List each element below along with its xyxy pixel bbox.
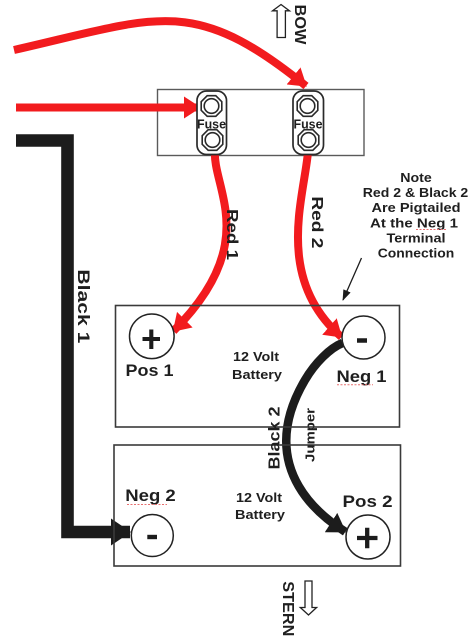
note arrow — [343, 258, 362, 300]
fuse F1 top terminal nut — [201, 96, 222, 117]
note text — [363, 170, 469, 261]
svg-text:Red 2 & Black 2: Red 2 & Black 2 — [363, 185, 469, 200]
svg-text:Black 2: Black 2 — [266, 406, 283, 469]
svg-text:12 Volt: 12 Volt — [236, 490, 283, 505]
svg-text:Battery: Battery — [235, 507, 286, 522]
fuse holder F2 — [293, 91, 324, 155]
wire Black 2 jumper (Neg 1 to Pos 2) — [286, 343, 345, 532]
fuse F1 bottom terminal nut — [202, 130, 223, 151]
wire red horizontal (Red 1 feed) — [16, 104, 200, 112]
fuse block — [158, 90, 365, 156]
svg-text:12 Volt: 12 Volt — [233, 349, 280, 364]
svg-text:Neg 1: Neg 1 — [337, 367, 387, 386]
terminal Neg 1 — [337, 316, 387, 386]
fuse F2 bottom terminal nut — [298, 130, 319, 151]
terminal Pos 1 — [126, 314, 175, 380]
note squiggle — [416, 229, 447, 231]
svg-text:BOW: BOW — [291, 5, 308, 46]
svg-text:Connection: Connection — [378, 246, 455, 261]
svg-text:STERN: STERN — [279, 581, 296, 636]
svg-text:Note: Note — [400, 170, 432, 185]
svg-text:Black 1: Black 1 — [74, 269, 92, 343]
fuse F2 top terminal nut — [297, 96, 318, 117]
svg-text:Red 2: Red 2 — [308, 196, 325, 248]
wire Red 2 (fuse to Neg 1) — [298, 152, 342, 337]
battery 2 box — [114, 445, 401, 566]
terminal Neg 2 — [125, 486, 176, 557]
svg-text:Jumper: Jumper — [303, 408, 317, 462]
wire Black 1 (left feed to Neg 2) — [16, 141, 130, 533]
svg-text:Pos 1: Pos 1 — [126, 361, 174, 380]
svg-text:Terminal: Terminal — [387, 230, 446, 245]
svg-text:Neg 2: Neg 2 — [125, 486, 176, 505]
svg-text:Pos 2: Pos 2 — [343, 492, 393, 511]
svg-text:At the Neg 1: At the Neg 1 — [370, 215, 458, 230]
wire red arc (Red 2 feed from bow) — [14, 21, 306, 86]
fuse holder F1 — [197, 91, 227, 155]
wire Red 1 (fuse to Pos 1) — [174, 150, 227, 331]
battery 1 box — [116, 306, 400, 428]
svg-text:Red 1: Red 1 — [223, 209, 240, 260]
arrow bow (up) — [273, 5, 290, 38]
svg-text:Are Pigtailed: Are Pigtailed — [372, 200, 461, 215]
arrow stern (down) — [300, 581, 316, 615]
terminal Pos 2 — [343, 492, 393, 559]
svg-text:Battery: Battery — [232, 367, 283, 382]
